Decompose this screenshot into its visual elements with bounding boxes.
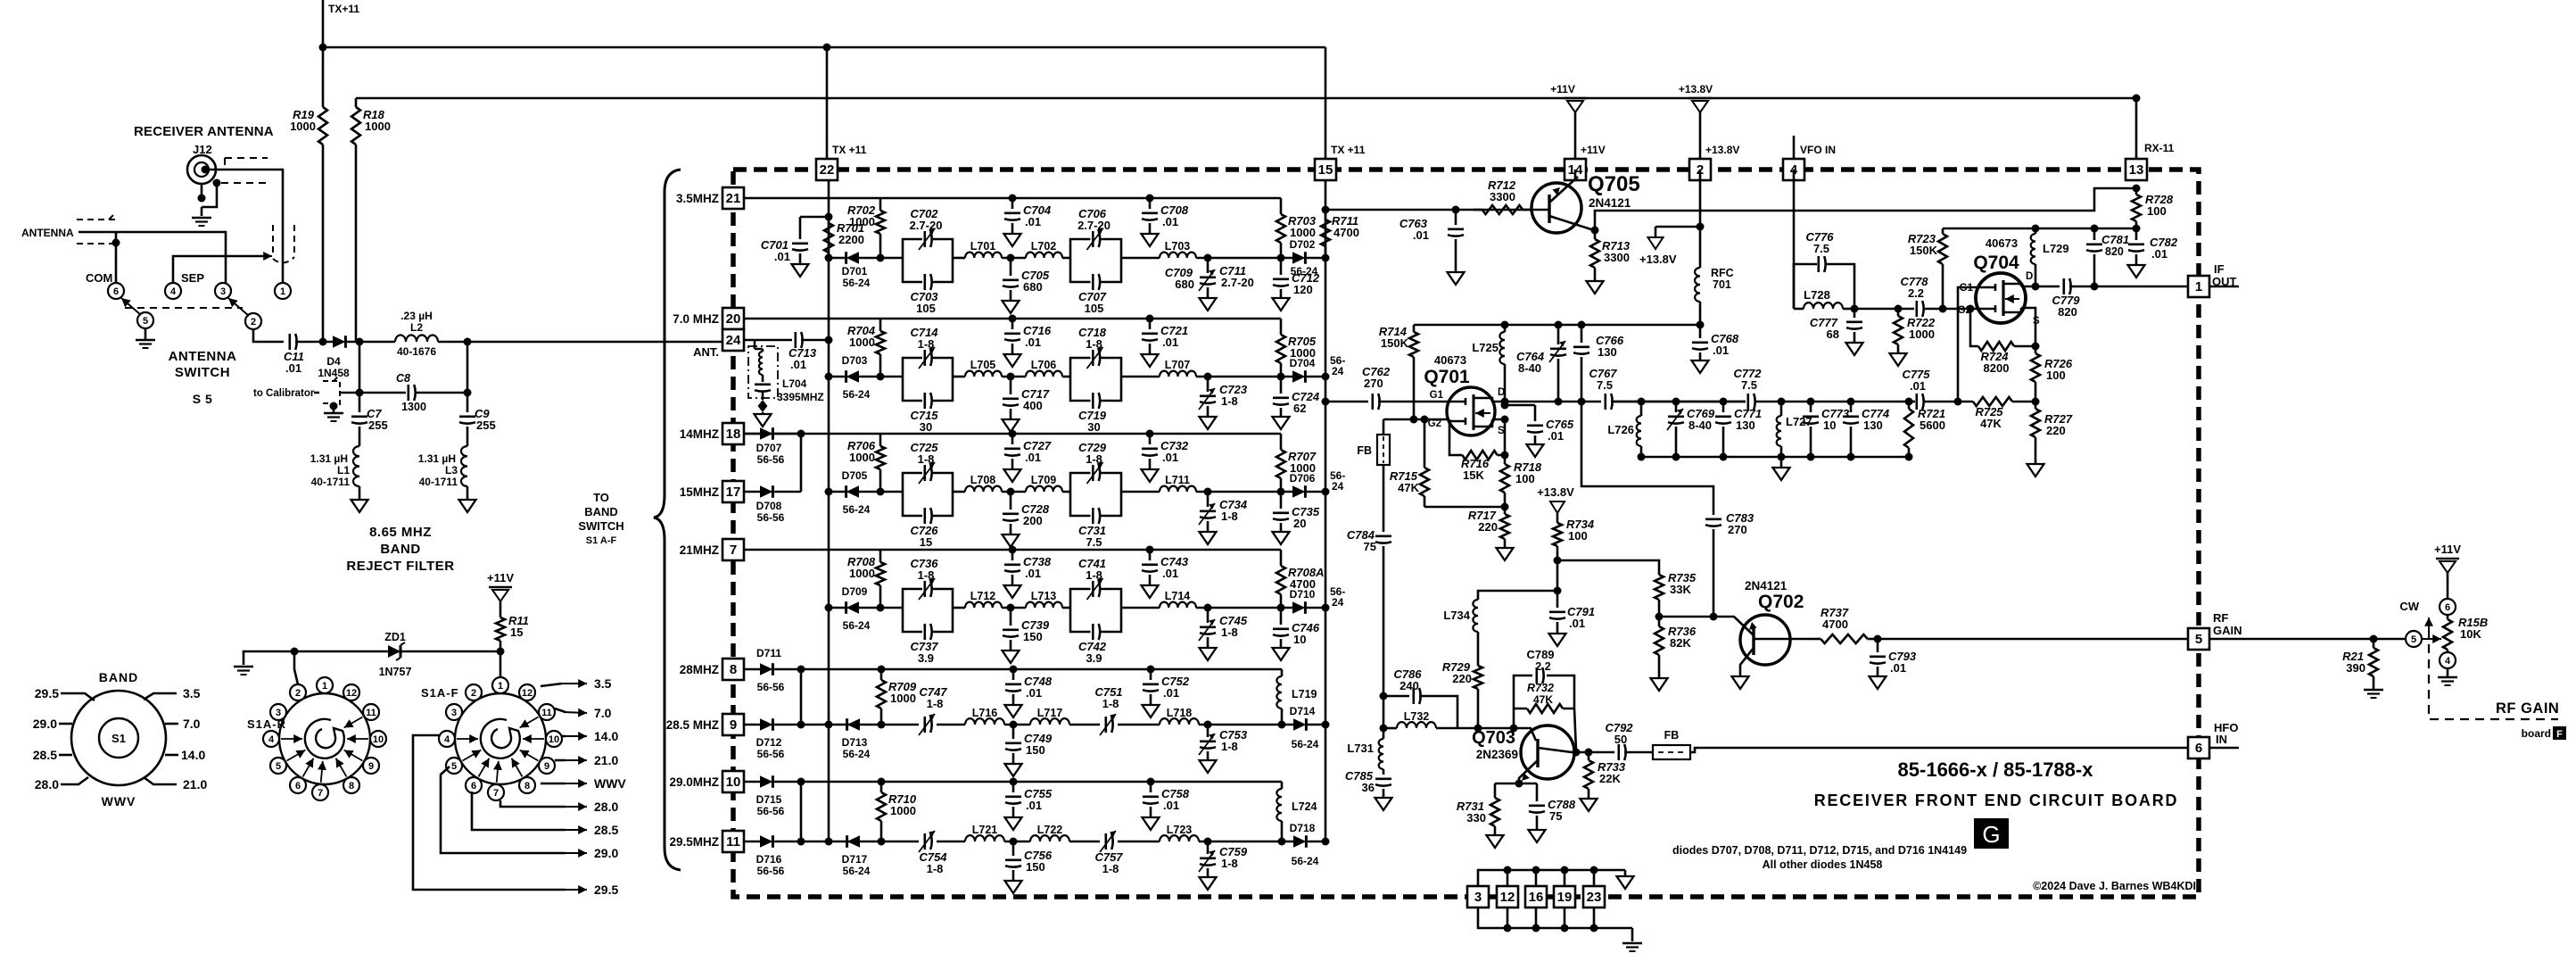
wire bias bottom [1424,506,1505,509]
capacitor C739 [1007,604,1015,612]
wire row signal [880,376,903,378]
svg-text:1000: 1000 [365,120,391,133]
svg-text:12: 12 [522,688,533,699]
svg-text:62: 62 [1293,402,1306,415]
svg-text:2N4121: 2N4121 [1589,196,1631,210]
svg-text:BAND: BAND [380,542,420,557]
wire ZD1 to S1A-R pin2 [294,651,298,684]
capacitor C763 [1452,206,1460,214]
switch S1 band dial [71,691,166,785]
capacitor C789 [1536,667,1539,684]
inductor L713 [1026,602,1062,608]
capacitor C701 [800,216,829,219]
svg-text:1-8: 1-8 [1221,510,1238,523]
transistor Q701 dual-gate MOSFET [1447,387,1495,435]
svg-text:240: 240 [1399,679,1419,692]
svg-text:40-1711: 40-1711 [311,476,351,488]
capacitor C738 [1009,546,1017,554]
svg-text:RX-11: RX-11 [2144,142,2175,154]
wire band riser [800,669,803,725]
svg-text:56-56: 56-56 [757,681,785,693]
S1 dial leader 28.5 [59,754,72,757]
svg-text:6: 6 [113,286,119,297]
wire R18 branch down [359,342,361,412]
svg-text:820: 820 [2105,245,2124,258]
svg-text:8: 8 [524,781,530,792]
capacitor C754 trimmer [924,833,927,850]
pin 24 [722,329,744,351]
svg-text:+13.8V: +13.8V [1537,485,1574,499]
svg-text:L2: L2 [410,321,423,334]
resistor R722 [1895,305,1903,313]
wire RX bus y=110 [356,98,2136,170]
resistor R710 [880,782,883,792]
svg-text:21: 21 [726,191,741,206]
resistor R21 [2373,639,2375,648]
svg-text:BAND: BAND [99,670,138,684]
node line RX-11 supply [1943,228,2136,230]
capacitor C749 [1010,721,1018,729]
svg-text:1000: 1000 [849,451,875,464]
S1 dial leader 3.5 [144,693,177,700]
zener diode ZD1 [388,645,400,658]
pin 5 [2188,628,2209,650]
svg-text:75: 75 [1364,540,1376,553]
diode D717 [847,835,860,848]
wire emitter node [1495,783,1537,785]
wire G2 drop [1449,419,1455,455]
junction [2370,635,2378,643]
svg-text:13: 13 [2129,162,2144,178]
capacitor C793 [1877,639,1879,652]
inductor RFC701 [1695,268,1700,302]
ground R717 [1497,548,1514,560]
pin 1 [2188,276,2209,297]
ground C712 [1273,298,1290,311]
svg-text:FB: FB [1664,729,1680,742]
resistor R717 [1504,507,1507,514]
wire collector to C792 [1589,751,1614,754]
svg-text:3300: 3300 [1490,190,1515,203]
svg-text:SWITCH: SWITCH [578,519,623,533]
svg-text:D703: D703 [842,354,868,367]
ground R733 [1581,799,1598,811]
svg-text:47K: 47K [1980,417,2002,430]
ground C704 [1004,234,1021,246]
inductor L708 [965,486,1002,492]
antenna dashed connector [77,214,116,220]
svg-text:24: 24 [1332,365,1344,377]
wire [1196,257,1281,260]
junction [2133,225,2141,233]
wire Q705 emitter to +11V [1574,170,1577,178]
svg-text:.01: .01 [1548,429,1564,443]
svg-text:10: 10 [373,734,384,745]
svg-text:.01: .01 [1413,228,1429,242]
wire band line y=357 [744,318,1281,320]
svg-text:RF GAIN: RF GAIN [2496,700,2559,717]
svg-text:8.65 MHZ: 8.65 MHZ [369,525,432,540]
svg-text:L734: L734 [1443,609,1470,622]
ground Q702 emitter [1732,676,1749,689]
resistor R712 [1474,209,1482,211]
junction [1410,416,1418,424]
svg-text:7.5: 7.5 [1741,378,1757,392]
ground C788 [1529,830,1546,842]
resistor R736 [1658,617,1661,626]
svg-text:L721: L721 [972,824,998,836]
svg-text:100: 100 [1515,472,1535,485]
ground C735 [1273,532,1290,544]
svg-text:30: 30 [920,420,932,434]
svg-text:1N458: 1N458 [318,367,350,379]
svg-text:150: 150 [1023,630,1043,643]
svg-text:20: 20 [1293,517,1306,530]
svg-text:TX +11: TX +11 [1331,144,1366,156]
capacitor C728 [1007,488,1015,496]
svg-text:1-8: 1-8 [1221,626,1238,639]
svg-text:.01: .01 [1890,661,1906,675]
capacitor C762 [1325,401,1368,403]
capacitor C751 trimmer [1105,717,1108,733]
svg-text:TX +11: TX +11 [832,144,867,156]
svg-text:400: 400 [1023,399,1043,412]
wire antenna bus vertical [828,180,830,841]
svg-text:56-56: 56-56 [757,865,785,877]
svg-text:56-56: 56-56 [757,453,785,466]
ground C752 [1143,705,1160,717]
wire [1121,257,1160,260]
ground L1 [359,486,361,500]
svg-text:24: 24 [1332,596,1344,609]
svg-text:D704: D704 [1290,357,1316,369]
svg-text:L725: L725 [1472,341,1499,354]
capacitor C724 [1277,373,1285,381]
diode D716 [744,841,801,843]
resistor R18 [355,98,358,107]
capacitor C731 [1070,492,1121,516]
wire antenna tap to COM pin6 [115,232,118,284]
diode D706 [1281,491,1325,493]
svg-text:7.5: 7.5 [1813,242,1829,255]
capacitor C771 [1722,402,1725,412]
ground C765 [1527,444,1544,457]
svg-text:17: 17 [726,485,741,500]
svg-text:1-8: 1-8 [1221,740,1238,753]
svg-text:L712: L712 [970,590,996,602]
svg-text:C781: C781 [2101,233,2129,246]
S1 dial leader 29.0 [59,723,72,725]
svg-text:1-8: 1-8 [1086,337,1102,351]
junction [319,44,327,52]
svg-text:5: 5 [143,316,148,327]
inductor L1 [353,446,359,486]
svg-text:Q702: Q702 [1758,592,1804,612]
pin 2 [1689,159,1711,180]
svg-text:.01: .01 [1025,215,1041,228]
transistor Q703 [1521,725,1574,779]
diode D705 [829,491,880,493]
pin 8 [722,659,744,680]
svg-text:RF: RF [2213,611,2228,625]
svg-text:22: 22 [820,162,835,178]
svg-text:150: 150 [1026,860,1045,874]
svg-text:390: 390 [2346,661,2365,675]
svg-text:.01: .01 [285,361,301,375]
svg-text:40-1711: 40-1711 [419,476,458,488]
S1 dial leader 29.5 [61,693,95,700]
RF GAIN dashed link [2429,644,2558,719]
svg-text:.01: .01 [1162,336,1178,349]
wire FB down [1383,465,1385,532]
svg-text:2: 2 [471,688,476,699]
svg-text:D718: D718 [1290,822,1316,834]
wire tank bottom rail [1641,456,1909,459]
svg-text:2: 2 [295,688,301,699]
svg-text:Q701: Q701 [1424,367,1470,387]
wire C783 drop from drain [1581,402,1713,515]
svg-text:220: 220 [1478,520,1498,534]
junction [2133,185,2141,193]
svg-text:29.0: 29.0 [594,846,618,860]
wire source chain [1505,402,1535,405]
svg-text:1-8: 1-8 [918,337,935,351]
resistor R707 [1280,434,1283,450]
svg-text:15: 15 [1318,162,1333,178]
pin 19 [1554,886,1575,908]
svg-text:56-24: 56-24 [843,748,871,760]
junction [1474,725,1482,733]
ground C739 [1003,651,1020,663]
svg-text:40673: 40673 [1434,353,1466,367]
capacitor C725 (trimmer) [903,473,953,492]
ground S5 pin5 [144,328,147,339]
diode D714 [1282,724,1325,726]
ground C753 [1200,760,1217,773]
transistor Q705 [1532,183,1581,233]
ground R15B [2447,668,2449,676]
capacitor C732 [1146,430,1154,438]
svg-text:TO: TO [593,491,609,504]
svg-text:21.0: 21.0 [183,777,207,792]
capacitor C779 [2035,286,2060,288]
capacitor C746 [1277,604,1285,612]
wire G2 to R724 [1967,305,1975,313]
capacitor C11 [288,334,291,350]
inductor L731 [1379,739,1383,769]
svg-text:19: 19 [1557,890,1573,905]
svg-text:D706: D706 [1290,472,1316,485]
svg-text:WWV: WWV [594,776,626,791]
junction [1939,305,1947,313]
ground C723 [1200,417,1217,429]
svg-text:15: 15 [510,626,523,639]
svg-text:100: 100 [2046,369,2066,382]
svg-text:330: 330 [1466,811,1486,825]
svg-text:L732: L732 [1404,710,1430,723]
svg-text:2.2: 2.2 [1908,286,1924,300]
svg-text:40-1676: 40-1676 [397,345,436,358]
svg-text:150K: 150K [1381,336,1409,350]
svg-text:6: 6 [2445,602,2450,613]
svg-text:10: 10 [1293,633,1306,646]
wire D4 to L2 [359,341,395,344]
capacitor C768 [1699,325,1702,338]
pin 7 [722,539,744,560]
capacitor C769 trimmer [1675,402,1678,412]
inductor L709 [1026,486,1062,492]
svg-text:1-8: 1-8 [918,452,935,466]
wire S1A-F 10 to 14.0 [562,735,566,738]
svg-text:©2024 Dave J. Barnes WB4KDI: ©2024 Dave J. Barnes WB4KDI [2033,880,2196,892]
capacitor C719 [1070,377,1121,401]
potentiometer R15B [2447,615,2449,619]
S5 wiper 2-3 [228,298,249,316]
resistor R723 [1942,228,1944,234]
junction [319,338,327,346]
brace band switch [654,170,681,870]
svg-text:10K: 10K [2460,627,2481,641]
transistor Q704 dual-gate MOSFET [1976,273,2026,323]
wire G2 line [1854,308,1977,311]
svg-text:29.5: 29.5 [594,883,618,897]
inductor L723 [1160,835,1199,841]
ground L704 [755,414,772,427]
ground ZD1 [234,666,253,667]
diode D713 [847,718,860,731]
svg-text:1: 1 [322,681,327,692]
svg-text:82K: 82K [1670,636,1691,650]
svg-text:6: 6 [471,781,476,792]
svg-text:GAIN: GAIN [2213,624,2242,637]
wire band riser [800,782,803,841]
svg-text:29.0MHZ: 29.0MHZ [669,775,719,789]
inductor L717 [1030,718,1069,725]
svg-text:36: 36 [1362,781,1375,794]
capacitor C726 [903,492,953,516]
svg-text:.01: .01 [774,250,790,263]
capacitor C729 (trimmer) [1070,473,1121,492]
inductor L706 [1026,371,1062,377]
svg-text:120: 120 [1293,283,1313,296]
capacitor C704 [1009,195,1017,203]
capacitor C775 [1916,394,1919,410]
svg-text:1N757: 1N757 [379,666,412,678]
wire R734 node down [1556,560,1559,591]
ground C749 [1005,764,1022,776]
diode D715 [744,781,801,783]
wire band line 3.5MHZ [744,197,1281,200]
resistor R705 [1280,319,1283,335]
junction [797,666,805,674]
svg-text:1000: 1000 [290,120,316,133]
resistor R703 [1280,198,1283,214]
svg-text:4700: 4700 [1822,617,1848,631]
wire S1A-F 12 to 3.5 [541,684,562,686]
svg-text:28.5 MHZ: 28.5 MHZ [666,718,719,732]
svg-text:680: 680 [1023,280,1043,294]
ground L3 [466,486,469,500]
svg-text:47K: 47K [1398,481,1419,494]
pin 16 [1525,886,1547,908]
wire RF GAIN to pot [2209,638,2421,641]
ground calibrator [330,402,338,410]
svg-text:1: 1 [2195,279,2202,294]
svg-text:L1: L1 [337,464,350,477]
svg-text:D713: D713 [842,736,868,749]
wire drain supply line [1414,324,1700,327]
svg-text:12: 12 [1500,890,1515,905]
svg-text:7.5: 7.5 [1597,378,1613,392]
capacitor C784 [1375,535,1391,537]
svg-text:C789: C789 [1526,648,1554,661]
resistor R732 [1527,704,1563,713]
resistor R716 [1455,454,1462,457]
wire HFO IN line [1690,748,2188,752]
svg-text:L702: L702 [1031,240,1057,253]
svg-text:to Calibrator: to Calibrator [253,388,315,399]
junction [797,778,805,786]
svg-text:220: 220 [1452,672,1472,685]
resistor R733 [1588,752,1590,760]
svg-text:20: 20 [726,311,741,327]
resistor R737 [1811,638,1821,641]
svg-text:+13.8V: +13.8V [1679,83,1713,95]
junction [1322,206,1330,214]
svg-text:2: 2 [251,317,256,327]
svg-text:4700: 4700 [1333,226,1359,239]
capacitor C714 (trimmer) [903,358,953,377]
svg-text:270: 270 [1364,377,1383,390]
resistor R708A [1280,550,1283,566]
svg-text:3: 3 [451,708,457,718]
node VFO IN [1793,136,1796,159]
svg-text:28.5: 28.5 [33,748,57,762]
svg-text:L706: L706 [1031,359,1057,371]
ground C782 [2128,265,2145,278]
ground R21 [2364,689,2383,691]
inductor L727 [1780,402,1783,416]
svg-text:100: 100 [2147,204,2167,218]
J12 shield dashed box [225,158,268,166]
wire to L731 [1383,546,1385,739]
inductor L702 [1026,253,1062,258]
resistor R708 [879,550,882,562]
wire row signal [801,841,919,843]
svg-text:2.7-20: 2.7-20 [910,219,943,232]
junction [1322,254,1330,262]
svg-text:5: 5 [451,761,457,772]
wire J12 shield to ground [202,183,217,207]
capacitor C735 [1277,488,1285,496]
resistor R731 [1494,783,1497,798]
svg-text:1-8: 1-8 [1221,857,1238,870]
inductor L724 [1278,838,1286,846]
svg-text:105: 105 [916,302,936,315]
svg-text:.01: .01 [1163,686,1179,700]
wire antenna to S5 pin3 [78,232,226,284]
wire ZD1 to ground [244,651,294,665]
wire IF line to C775 [1909,401,1958,403]
svg-text:47K: 47K [1533,693,1553,706]
svg-text:56-24: 56-24 [1292,855,1319,867]
ground C701 [792,264,809,277]
svg-text:9: 9 [730,717,737,733]
svg-text:D717: D717 [842,853,868,866]
svg-text:7.0: 7.0 [594,706,612,720]
junction [464,338,472,346]
svg-text:ANTENNA: ANTENNA [21,227,74,239]
